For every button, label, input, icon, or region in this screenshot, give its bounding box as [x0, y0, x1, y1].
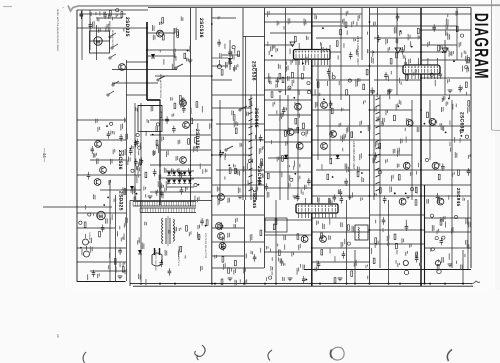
wire V45 (vertical, x=430) [429, 100, 431, 160]
wire H39 (horizontal, y=140) [212, 139, 264, 141]
wire V25 (vertical, x=285.5) [285, 8, 287, 95]
wire V21 (vertical, x=256.5) [256, 68, 258, 200]
svg-text:34!: 34! [56, 334, 59, 338]
wire H99 (horizontal, y=218) [312, 217, 370, 219]
ground symbol 10 [448, 264, 453, 267]
wire H37 (horizontal, y=108) [212, 107, 251, 109]
bus V28 (vertical, x=311.8) [311, 8, 313, 286]
junction 23 [146, 61, 148, 63]
wire H10 (horizontal, y=76) [155, 75, 211, 77]
components cluster 4 (resistors, capacitors, value labels) x150-190 y10-70 [152, 16, 190, 69]
diode bridge D501-D510 [167, 172, 191, 184]
scan artifact: right page edge [491, 0, 493, 130]
components cluster 13 (resistors, capacitors, value labels) x371-419 y10-95 [370, 13, 420, 99]
wire H35 (horizontal, y=80) [212, 79, 232, 81]
transistor Q13 [295, 103, 302, 110]
wire V30 (vertical, x=330) [329, 45, 331, 160]
transistor Q11 [218, 233, 225, 240]
wire H101 (horizontal, y=248) [312, 247, 370, 249]
junction 11 (bottom bus) [346, 283, 348, 285]
wire H76 (horizontal, y=66) [370, 65, 403, 67]
wire: thick B+ bus jog [147, 99, 161, 101]
wire H109 (horizontal, y=200.5) [130, 200, 212, 202]
wire H89 (horizontal, y=60) [421, 59, 471, 61]
transistor Q8 [180, 157, 187, 164]
junction 1 (bottom bus) [140, 283, 142, 285]
wire H108 (horizontal, y=248) [424, 247, 471, 249]
wire V8 (vertical, x=141) [140, 103, 142, 282]
wire H98 (horizontal, y=252) [264, 251, 312, 253]
wire H44 (horizontal, y=14) [264, 13, 312, 15]
transistor Q6 [180, 100, 187, 107]
power transformer T1 [162, 216, 175, 246]
wire V18 (vertical, x=245.7) [245, 36, 247, 200]
wire H57 (horizontal, y=188) [264, 187, 312, 189]
junction 9 (bottom bus) [311, 283, 313, 285]
svg-text:2SC693: 2SC693 [459, 112, 465, 132]
junction 37 [420, 169, 422, 171]
wire H50 (horizontal, y=90) [264, 89, 312, 91]
coil T2 winding [358, 227, 359, 240]
wire V39 (vertical, x=380) [379, 95, 381, 268]
wire H19 (horizontal, y=207) [43, 206, 112, 208]
ground symbol 4 [348, 196, 353, 199]
junction 8 (bottom bus) [275, 283, 277, 285]
wire V36 (vertical, x=369.5) [369, 8, 371, 284]
wire H38 (horizontal, y=124) [216, 123, 264, 125]
junction 33 [420, 51, 422, 53]
svg-text:LINE REC AMP UNIT: LINE REC AMP UNIT [352, 141, 356, 170]
wire V7 (vertical, x=135) [134, 103, 136, 200]
wire V6 (vertical, x=126.5) [126, 60, 128, 281]
components cluster 17 (resistors, capacitors, value labels) x213-262 y215-280 [214, 218, 261, 286]
junction 7 (bottom bus) [264, 283, 266, 285]
bus V9 (vertical, x=147) [146, 22, 148, 100]
ground symbol 7 [288, 278, 293, 281]
transistor Q1 [157, 30, 164, 37]
transistor Q22 [437, 198, 444, 205]
wire: bridge row mid [166, 178, 194, 180]
connector J1 (line amp unit, top) [294, 50, 331, 60]
unit boundary boxes and schematic frame [77, 8, 473, 287]
wire H52 (horizontal, y=115) [268, 114, 312, 116]
wire V3 (vertical, x=96.5) [96, 25, 98, 60]
wire H66 (horizontal, y=126) [316, 125, 370, 127]
wire H102 (horizontal, y=262) [312, 261, 370, 263]
output jacks (LINE OUTPUT) [403, 260, 441, 274]
test point TP1 [395, 48, 401, 53]
junction 38 [420, 195, 422, 197]
wire H60 (horizontal, y=38) [316, 37, 362, 39]
wire H72 (horizontal, y=14) [370, 13, 421, 15]
transistor Q19 [301, 236, 308, 243]
wire V15 (vertical, x=220) [219, 100, 221, 200]
scan artifact: top gray edge line [68, 5, 500, 11]
wire H3 (horizontal, y=18) [96, 17, 122, 19]
junction 40 [211, 23, 213, 25]
wire H82 (horizontal, y=155) [370, 154, 412, 156]
ground symbol 8 [338, 278, 343, 281]
diode D2 [284, 155, 288, 159]
junction 24 [146, 82, 148, 84]
wire V4 (vertical, x=110) [109, 180, 111, 281]
wire V5 (vertical, x=115.5) [115, 195, 117, 281]
junction 50 [369, 229, 371, 231]
test point TP3 [290, 42, 295, 47]
connector J2 (rec amp unit) [403, 65, 440, 74]
wire H45 (horizontal, y=22) [264, 21, 341, 23]
junction 4 (bottom bus) [211, 283, 213, 285]
connector J3 (power unit, top) [296, 204, 338, 213]
wire: jack feed [212, 57, 228, 59]
junction 34 [420, 77, 422, 79]
transistor Q4 [94, 179, 101, 186]
svg-text:2SD325: 2SD325 [124, 17, 130, 37]
ground symbol 1 [148, 196, 153, 199]
ground symbol 2 [238, 196, 243, 199]
wire H71 (horizontal, y=196) [312, 195, 370, 197]
components cluster 14 (resistors, capacitors, value labels) x371-419 y95-200 [373, 100, 420, 205]
svg-text:2SC945: 2SC945 [256, 166, 262, 186]
diode D1 [151, 54, 155, 58]
wire H47 (horizontal, y=45) [264, 44, 294, 46]
ground symbol 3 [293, 196, 298, 199]
wire H28 (horizontal, y=165) [150, 164, 211, 166]
motor M1 (reel motor) [94, 37, 102, 46]
wire H2 (horizontal, y=14) [82, 13, 126, 15]
components cluster 25 (resistors, capacitors, value labels) x80-124 y205-275 [79, 212, 127, 277]
wire H70 (horizontal, y=185) [312, 184, 370, 186]
transistor Q5 [119, 64, 126, 71]
wire V22 (vertical, x=264.5) [264, 8, 266, 268]
transistor Q21 [399, 198, 406, 205]
wire V14 (vertical, x=211.8) [211, 8, 213, 284]
wire H13 (horizontal, y=95) [126, 94, 147, 96]
components cluster 11 (resistors, capacitors, value labels) x313-368 y10-95 [315, 11, 370, 96]
wire H90 (horizontal, y=78) [421, 77, 471, 79]
wire H41 (horizontal, y=170) [216, 169, 264, 171]
sub-box: bias oscillator [138, 106, 162, 132]
wire V37 (vertical, x=374) [373, 95, 375, 200]
svg-text:AC 117V 220V 240V: AC 117V 220V 240V [154, 250, 157, 271]
junction 12 (bottom bus) [354, 283, 356, 285]
wire H67 (horizontal, y=140) [312, 139, 370, 141]
switch column: REC/PB switch S2-2 [376, 98, 380, 191]
diode D3 [336, 155, 340, 159]
wire H104 (horizontal, y=230) [370, 229, 424, 231]
scan mark: bottom border tail [471, 281, 480, 284]
motor M2 (capstan motor) [97, 211, 105, 220]
schematic paper area [65, 0, 495, 292]
components cluster 1 (resistors, capacitors, value labels) x80-126 y10-30 [79, 9, 124, 33]
wire H58 (horizontal, y=14) [312, 13, 362, 15]
wire: bridge row top [166, 170, 194, 172]
wire H4 (horizontal, y=33) [147, 32, 175, 34]
wire H106 (horizontal, y=218) [424, 217, 471, 219]
sub-box: osc coil T2 [355, 225, 368, 240]
wire V13 (vertical, x=196) [195, 8, 197, 40]
wire H8 (horizontal, y=62) [126, 61, 147, 63]
wire H17 (horizontal, y=175) [77, 174, 141, 176]
svg-text:2SC536: 2SC536 [117, 150, 123, 170]
transistor Q3 [100, 167, 107, 174]
wire H16 (horizontal, y=160) [90, 159, 126, 161]
wire V23 (vertical, x=276) [275, 200, 277, 284]
wire H83 (horizontal, y=170) [374, 169, 471, 171]
test point TP2 [442, 48, 448, 53]
svg-text:REEL MOTOR SWITCH: REEL MOTOR SWITCH [159, 74, 162, 98]
junction 17 (bottom bus) [424, 283, 426, 285]
junction 25 [311, 25, 313, 27]
ground symbol 13 [388, 90, 393, 93]
wire: bridge row bottom [166, 186, 194, 188]
wire H91 (horizontal, y=215) [212, 214, 264, 216]
wire V29 (vertical, x=318) [317, 60, 319, 160]
svg-text:REWIND SWITCH: REWIND SWITCH [111, 30, 114, 48]
wire H94 (horizontal, y=256) [212, 255, 244, 257]
wire V16 (vertical, x=230) [229, 40, 231, 70]
junction 5 (bottom bus) [214, 283, 216, 285]
ground symbol 12 [278, 90, 283, 93]
wire V47 (vertical, x=452) [451, 100, 453, 268]
svg-text:M: M [96, 39, 100, 45]
components cluster 7 (resistors, capacitors, value labels) x226-240 y50-66 [228, 49, 239, 72]
wire H64 (horizontal, y=95) [312, 94, 370, 96]
junction 42 [211, 119, 213, 121]
wire H86 (horizontal, y=14) [421, 13, 471, 15]
wire V19 (vertical, x=244.5) [244, 200, 246, 284]
junction 14 (bottom bus) [388, 283, 390, 285]
head: playback head [83, 234, 89, 245]
ground symbol 5 [406, 196, 411, 199]
junction 18 (bottom bus) [429, 283, 431, 285]
junction 28 [311, 139, 313, 141]
wire H61 (horizontal, y=52) [312, 51, 341, 53]
wire V17 (vertical, x=243) [242, 8, 244, 200]
wire H97 (horizontal, y=235) [264, 234, 312, 236]
wire V27 (vertical, x=298) [297, 60, 299, 200]
wire H107 (horizontal, y=232) [424, 231, 471, 233]
wire V46 (vertical, x=445) [444, 40, 446, 95]
junction 20 (bottom bus) [462, 283, 464, 285]
wire H11 (horizontal, y=83) [112, 82, 158, 84]
components cluster 10 (resistors, capacitors, value labels) x266-310 y95-200 [264, 97, 310, 201]
wire H1 (horizontal, y=28) [77, 27, 147, 29]
wire H75 (horizontal, y=52) [370, 51, 445, 53]
junction 21 [146, 27, 148, 29]
transistor Q16 [330, 131, 337, 138]
wire H34 (horizontal, y=66) [212, 65, 228, 67]
transistor Q10 [216, 223, 223, 230]
wire H96 (horizontal, y=220) [264, 219, 312, 221]
junction 44 [211, 195, 213, 197]
junction 6 (bottom bus) [243, 283, 245, 285]
junction 49 [369, 195, 371, 197]
wire V48 (vertical, x=457) [456, 8, 458, 60]
wire V42 (vertical, x=412) [411, 100, 413, 200]
wire H36 (horizontal, y=95) [212, 94, 264, 96]
wire H42 (horizontal, y=185) [212, 184, 264, 186]
transistor Q17 [296, 143, 303, 150]
transistor Q25 [403, 162, 410, 169]
svg-text:2SC945: 2SC945 [252, 190, 257, 209]
sub-box: meter amp [265, 218, 287, 232]
svg-text:—44—: —44— [42, 148, 47, 163]
wire H21 (horizontal, y=228) [77, 227, 115, 229]
wire H73 (horizontal, y=26) [370, 25, 457, 27]
wire H87 (horizontal, y=30) [421, 29, 471, 31]
junction 22 [146, 49, 148, 51]
wire H20 (horizontal, y=213) [77, 212, 126, 214]
wire V33 (vertical, x=349.7) [349, 95, 351, 200]
wire H79 (horizontal, y=110) [370, 109, 412, 111]
wire H12 (horizontal, y=105.5) [138, 105, 162, 107]
wire H7 (horizontal, y=56) [147, 55, 175, 57]
wire H92 (horizontal, y=228) [212, 227, 244, 229]
wire H31 (horizontal, y=18) [212, 17, 236, 19]
wire H25 (horizontal, y=120) [150, 119, 211, 121]
junction 47 [369, 109, 371, 111]
transistor Q23 [406, 120, 413, 127]
transistor Q7 [183, 122, 190, 129]
wire H22 (horizontal, y=248) [77, 247, 126, 249]
wire V35 (vertical, x=362) [361, 8, 363, 60]
components cluster 15 (resistors, capacitors, value labels) x423-469 y10-95 [427, 11, 469, 98]
svg-text:mode with the pause button dow: mode with the pause button down. [56, 9, 59, 52]
transistor Q24 [429, 118, 436, 125]
wire H43 (horizontal, y=196) [212, 195, 264, 197]
wire H62 (horizontal, y=66) [312, 65, 370, 67]
wire H30 (horizontal, y=192) [150, 191, 211, 193]
wire H74 (horizontal, y=38) [374, 37, 421, 39]
wire H14 (horizontal, y=120) [77, 119, 126, 121]
wire H5 (horizontal, y=41) [90, 40, 110, 42]
wire H88 (horizontal, y=45) [421, 44, 457, 46]
components cluster 5 (resistors, capacitors, value labels) x160-211 y95-200 [161, 96, 211, 205]
wire V50 (vertical, x=468) [467, 200, 469, 270]
wire V2 (vertical, x=90) [89, 10, 91, 50]
bus V44 (vertical, x=424.5) [424, 185, 426, 284]
transistor Q20 [320, 236, 327, 243]
components cluster 12 (resistors, capacitors, value labels) x313-368 y95-200 [315, 99, 370, 206]
wire V12 (vertical, x=190.5) [190, 8, 192, 206]
junction 46 [369, 65, 371, 67]
wire V26 (vertical, x=288) [287, 95, 289, 200]
junction 35 [420, 109, 422, 111]
components cluster 6 (resistors, capacitors, value labels) x213-240 y12-70 [217, 16, 235, 75]
ground symbol 9 [118, 276, 123, 279]
wire H18 (horizontal, y=190) [100, 189, 141, 191]
scan mark: bottom curls [83, 345, 452, 363]
junction 32 [420, 29, 422, 31]
wire V11 (vertical, x=174) [173, 28, 175, 70]
diode D6 [228, 58, 232, 62]
wire H80 (horizontal, y=126) [374, 125, 471, 127]
junction 2 (bottom bus) [159, 283, 161, 285]
head: record head [84, 246, 90, 257]
ground symbol 14 [448, 90, 453, 93]
wire H40 (horizontal, y=155) [212, 154, 251, 156]
junction 19 (bottom bus) [444, 283, 446, 285]
components cluster 8 (resistors, capacitors, value labels) x213-262 y95-200 [217, 100, 265, 205]
wire H59 (horizontal, y=26) [312, 25, 377, 27]
svg-text:2SC536: 2SC536 [198, 18, 204, 38]
transistor Q9 [218, 194, 225, 201]
wire H46 (horizontal, y=33) [270, 32, 312, 34]
junction 10 (bottom bus) [319, 283, 321, 285]
ground symbol 11 [188, 60, 193, 63]
wire H48 (horizontal, y=60) [264, 59, 298, 61]
wire H53 (horizontal, y=130) [264, 129, 312, 131]
wire H95 (horizontal, y=268) [212, 267, 264, 269]
wire H23 (horizontal, y=262) [77, 261, 126, 263]
wire V40 (vertical, x=388.6) [388, 200, 390, 284]
wire V31 (vertical, x=341) [340, 8, 342, 100]
wire H78 (horizontal, y=95) [370, 94, 471, 96]
junction 45 [369, 21, 371, 23]
wire H65 (horizontal, y=110) [312, 109, 350, 111]
components cluster 19 (resistors, capacitors, value labels) x313-368 y215-280 [315, 219, 369, 284]
components cluster 24 (resistors, capacitors, value labels) x127-164 y132-198 [128, 134, 163, 198]
transistor Q14 [321, 102, 328, 109]
wire H51 (horizontal, y=100) [264, 99, 312, 101]
junction 43 [211, 154, 213, 156]
components cluster 22 (resistors, capacitors, value labels) x80-126 y205-278 [80, 204, 128, 280]
wire H100 (horizontal, y=232) [312, 231, 370, 233]
wire V34 (vertical, x=355) [354, 250, 356, 284]
components cluster 23 (resistors, capacitors, value labels) x132-210 y215-280 [137, 218, 208, 285]
ground symbol 6 [228, 278, 233, 281]
junction 30 [311, 217, 313, 219]
svg-text:2SC536: 2SC536 [251, 61, 257, 81]
wire H85 (horizontal, y=196) [370, 195, 471, 197]
wire H54 (horizontal, y=142) [264, 141, 312, 143]
switch column: REC/PB switch S2-1 [249, 98, 253, 191]
transistor Q2 [95, 141, 102, 148]
junction 39 [420, 229, 422, 231]
wire H81 (horizontal, y=140) [370, 139, 471, 141]
junction 27 [311, 94, 313, 96]
junction 36 [420, 139, 422, 141]
wire H6 (horizontal, y=50) [147, 49, 190, 51]
components cluster 20 (resistors, capacitors, value labels) x371-420 y215-265 [371, 217, 422, 267]
junction 29 [311, 184, 313, 186]
wire H103 (horizontal, y=215) [370, 214, 424, 216]
wire V24 (vertical, x=280) [279, 95, 281, 200]
wire H29 (horizontal, y=178) [160, 177, 211, 179]
sub-box: motor control (rewind) [90, 31, 110, 53]
junction 48 [369, 154, 371, 156]
wire V41 (vertical, x=397) [396, 8, 398, 95]
wire H49 (horizontal, y=78) [264, 77, 312, 79]
bus V10 (vertical, x=160) [159, 100, 161, 205]
junction 3 (bottom bus) [174, 283, 176, 285]
svg-text:DIAGRAM: DIAGRAM [470, 13, 491, 80]
connector J4 pin row (power transformer) [133, 202, 196, 213]
wire V32 (vertical, x=346.6) [346, 200, 348, 284]
diode D5 [138, 250, 142, 254]
wire V49 (vertical, x=463) [462, 250, 464, 284]
transistor Q12 [219, 243, 226, 250]
svg-text:2SC945: 2SC945 [253, 108, 259, 128]
wire H69 (horizontal, y=170) [316, 169, 370, 171]
transistor Q18 [321, 143, 328, 150]
jack PL-3 (mic input) [217, 60, 221, 69]
wire H9 (horizontal, y=69.6) [112, 69, 177, 71]
wire H32 (horizontal, y=36.5) [243, 36, 265, 38]
transistor Q15 [287, 129, 294, 136]
switches (function) [157, 64, 247, 151]
